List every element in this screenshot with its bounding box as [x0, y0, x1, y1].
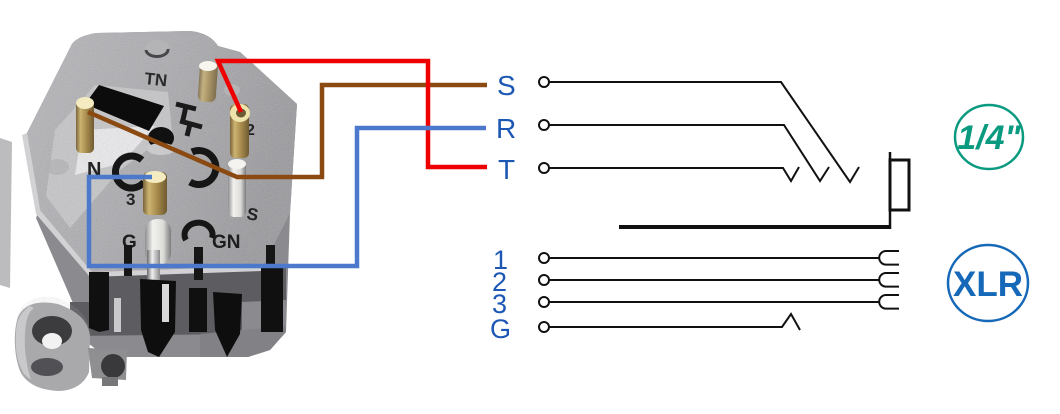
lower black pin a: [124, 245, 132, 276]
face edge highlight lower-left: [22, 133, 263, 277]
terminal post top tan: [197, 61, 218, 102]
top face highlight patch: [46, 85, 172, 228]
connector top face: [27, 31, 297, 272]
svg-text:XLR: XLR: [953, 265, 1023, 304]
connector side wall lower body: [27, 31, 297, 357]
ear hole through white: [42, 333, 62, 349]
terminal S white: [228, 160, 246, 217]
black tab 3: [189, 288, 207, 332]
terminal node T circle: [539, 163, 549, 173]
terminal 3 gold: [143, 172, 167, 215]
foot stub: [102, 377, 118, 386]
ear hole rim: [32, 316, 72, 346]
lower black pin mid: [194, 247, 203, 280]
terminal node 2 circle: [539, 275, 549, 285]
molded arc reversed C: [190, 151, 216, 185]
xlr pin 2 line: [549, 279, 879, 281]
jack plug sleeve line: [619, 225, 890, 229]
jack plug body vertical: [889, 152, 892, 229]
screw boss top: [145, 40, 169, 56]
black tab 2 center: [140, 279, 176, 357]
lower silver pin 1: [147, 250, 160, 298]
molded T symbols: [176, 104, 202, 136]
xlr ground G line with strain bump: [549, 314, 800, 330]
terminal 2 gold: [230, 104, 249, 158]
terminal G white: [145, 219, 171, 265]
jack plug rectangle: [890, 160, 909, 210]
wire brown from terminal 1 to S: [88, 85, 487, 177]
terminal node 1 circle: [539, 253, 549, 263]
jack contact R line: [549, 125, 829, 181]
badge 1/4 inch: [955, 105, 1023, 169]
wire red from terminal 2 to T: [218, 61, 487, 167]
connector left sliver: [0, 138, 12, 288]
xlr pin 1 line: [549, 257, 879, 259]
ear highlight: [16, 306, 34, 380]
black rectangular hole: [85, 85, 164, 131]
black tab 1: [89, 272, 109, 332]
terminal node R circle: [539, 120, 549, 130]
foot dark knob: [101, 354, 125, 378]
black round hole: [148, 127, 174, 149]
screw boss right: [224, 84, 240, 96]
svg-text:S: S: [497, 70, 516, 101]
xlr pin 2 fork: [879, 273, 899, 287]
lower black pin b: [266, 245, 275, 276]
terminal 1 gold: [76, 99, 94, 153]
xlr pin 3 fork: [879, 295, 899, 309]
svg-text:TN: TN: [144, 69, 169, 90]
photo grain overlay: [10, 35, 310, 395]
bottom foot plate: [88, 348, 127, 380]
svg-text:GN: GN: [212, 232, 241, 253]
molded arc cap: [185, 223, 213, 240]
terminal node G circle: [539, 322, 549, 332]
wire blue from terminal 3 to R: [89, 128, 486, 266]
svg-text:T: T: [498, 154, 515, 185]
svg-text:3: 3: [126, 190, 135, 209]
connector J1 combo jack photo: [0, 31, 310, 395]
tab highlight pin: [162, 284, 169, 322]
ear lower recess: [31, 358, 63, 376]
tab gap pin: [114, 298, 121, 332]
jack contact S line: [549, 82, 859, 182]
terminal node 3 circle: [539, 297, 549, 307]
terminal node S circle: [539, 77, 549, 87]
svg-text:G: G: [490, 314, 511, 344]
mounting ear: [15, 303, 90, 391]
svg-text:R: R: [496, 113, 516, 144]
lower body shading: [70, 268, 286, 336]
molded arc C: [115, 156, 144, 188]
jack contact T line: [549, 167, 799, 181]
black tab 5: [261, 268, 283, 332]
xlr pin 3 line: [549, 301, 879, 303]
xlr pin 1 fork: [879, 251, 899, 265]
screw boss left: [45, 159, 69, 175]
svg-text:1/4": 1/4": [957, 119, 1021, 157]
bright patch under hole: [75, 126, 155, 175]
badge XLR: [948, 245, 1028, 321]
black tab 4: [213, 292, 242, 357]
